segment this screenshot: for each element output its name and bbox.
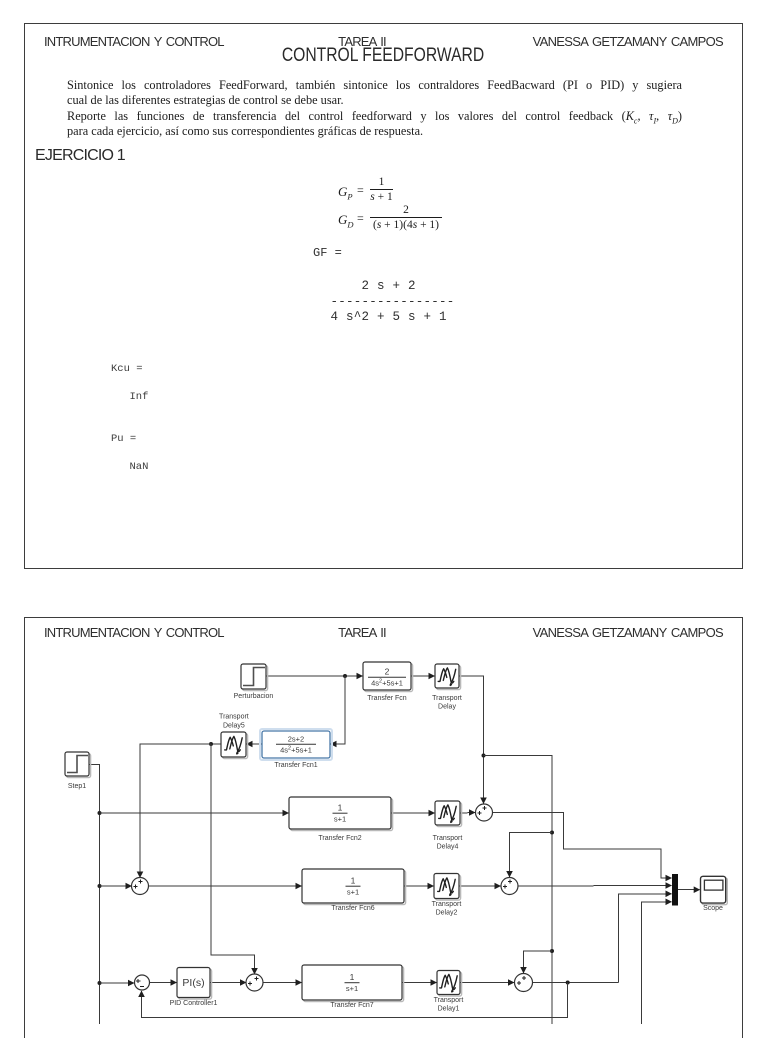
- node: junction on Perturbacion line: [343, 674, 347, 678]
- mux block Mux: [672, 874, 678, 906]
- node: junction x528 to Sum4R: [550, 831, 554, 835]
- wire: Transport Delay4 to Sum3 left input: [460, 812, 475, 815]
- GF =: [313, 246, 342, 260]
- wire: Transport Delay5 output going left: [211, 743, 221, 745]
- transfer function block Transfer Fcn6: [302, 869, 406, 912]
- EJERCICIO 1 heading: [35, 147, 125, 165]
- svg-text:Step1: Step1: [68, 783, 86, 790]
- source block Step1: [65, 752, 91, 790]
- page 1 header right: [523, 34, 723, 49]
- node: junction Step1 line to Sum4L: [98, 884, 102, 888]
- svg-text:2: 2: [385, 667, 390, 677]
- wire: Step1 output down the left vertical x=75.5: [89, 765, 100, 1025]
- svg-text:Transport: Transport: [433, 835, 463, 842]
- paragraph: [67, 78, 682, 139]
- sum block Sum5M: [246, 974, 263, 991]
- page 1 border: [24, 23, 744, 569]
- sum block Sum4L: [132, 878, 149, 895]
- wire: Perturbacion output to Transfer Fcn: [266, 675, 363, 677]
- page 2 header right: [523, 625, 723, 640]
- svg-text:Delay5: Delay5: [223, 722, 245, 729]
- svg-text:Delay4: Delay4: [437, 844, 459, 851]
- wire: Transfer Fcn2 to Transport Delay4: [391, 812, 435, 814]
- wire: branch left and down to Sum4L top input: [140, 744, 211, 878]
- svg-text:Transport: Transport: [432, 695, 462, 702]
- node: junction Step1 line to Sum5L: [98, 981, 102, 985]
- wire: Mux input 4 from bottom: [642, 902, 672, 1024]
- node: junction on Sum5R output: [566, 981, 570, 985]
- node: junction on Transport Delay drop line: [482, 754, 486, 758]
- wire: Sum4L output to Transfer Fcn6: [148, 885, 302, 887]
- wire: branch down from Perturbacion line into Transfer Fcn1 input: [330, 676, 345, 744]
- svg-text:Delay1: Delay1: [438, 1006, 460, 1013]
- svg-text:Transfer Fcn6: Transfer Fcn6: [331, 905, 374, 912]
- equation Gp = 1/(s+1): [338, 184, 353, 202]
- transport delay block Transport Delay: [432, 664, 462, 711]
- svg-text:Delay2: Delay2: [436, 910, 458, 917]
- page 1 title: [259, 45, 507, 67]
- wire: branch to Sum5R top input: [524, 951, 553, 973]
- wire: branch to Sum4R top input: [510, 833, 553, 878]
- svg-text:4s2+5s+1: 4s2+5s+1: [371, 679, 403, 688]
- svg-text:s+1: s+1: [347, 888, 359, 897]
- svg-text:PID Controller1: PID Controller1: [170, 1000, 218, 1007]
- transfer function text block: [331, 279, 455, 326]
- wire: Transport Delay down to Sum3 top: [459, 676, 484, 804]
- wire: Transfer Fcn1 output to Transport Delay5: [246, 743, 262, 745]
- wire: Transfer Fcn6 to Transport Delay2: [404, 885, 434, 887]
- svg-text:s+1: s+1: [334, 815, 346, 824]
- transfer function block Transfer Fcn7: [302, 965, 404, 1009]
- transport delay block Transport Delay5: [219, 713, 249, 758]
- Pu =: [111, 433, 136, 445]
- svg-text:Perturbacion: Perturbacion: [234, 693, 274, 700]
- page 1 header left: [44, 34, 224, 49]
- node: junction on Transport Delay5 output: [209, 742, 213, 746]
- wire: branch right then down long vertical x=528: [484, 756, 553, 1025]
- page 2 border: [24, 617, 744, 1038]
- svg-text:1: 1: [350, 972, 355, 982]
- Inf: [130, 391, 149, 403]
- svg-text:Scope: Scope: [703, 905, 723, 912]
- sum block Sum5L: [135, 975, 150, 990]
- sum block Sum3: [476, 804, 493, 821]
- svg-text:Transport: Transport: [219, 713, 249, 720]
- svg-text:Transfer Fcn2: Transfer Fcn2: [318, 835, 361, 842]
- svg-text:1: 1: [351, 876, 356, 886]
- wire: to Transfer Fcn2 input: [100, 812, 290, 814]
- Kcu =: [111, 363, 143, 375]
- wire: Transport Delay1 to Sum5R left input: [459, 982, 514, 984]
- svg-text:1: 1: [338, 803, 343, 813]
- wire: Transport Delay2 to Sum4R left input: [459, 885, 501, 887]
- transport delay block Transport Delay4: [433, 801, 463, 851]
- svg-text:s+1: s+1: [346, 984, 358, 993]
- svg-text:Transport: Transport: [434, 997, 464, 1004]
- wire: Sum5L output to PID Controller1: [150, 982, 177, 984]
- node: junction Step1 line to Transfer Fcn2: [98, 811, 102, 815]
- wire: PID Controller1 output to Sum5M: [210, 982, 246, 984]
- wire: Sum5M output to Transfer Fcn7: [263, 982, 302, 984]
- svg-text:4s2+5s+1: 4s2+5s+1: [280, 746, 312, 755]
- transfer function block Transfer Fcn1 (highlighted): [260, 729, 332, 769]
- svg-text:Transfer Fcn7: Transfer Fcn7: [330, 1002, 373, 1009]
- wire: to Sum4L left input: [100, 885, 132, 887]
- wire: up to Mux input 3: [619, 894, 672, 983]
- transport delay block Transport Delay2: [432, 874, 462, 917]
- page 1 header center: [282, 34, 442, 49]
- wire: Sum4R output to Mux input 2: [518, 885, 672, 888]
- page 2 header center: [282, 625, 442, 640]
- wire: Mux output to Scope: [678, 889, 700, 891]
- NaN: [130, 461, 149, 473]
- node: junction x528 to Sum5R: [550, 949, 554, 953]
- transfer function block Transfer Fcn2: [289, 797, 393, 842]
- wire: feedback from Sum5R output down and left to Sum5L minus input: [142, 983, 568, 1018]
- sum block Sum5R: [515, 974, 533, 992]
- wire: Sum3 output to Mux input 1: [493, 813, 672, 879]
- equation Gd = 2/((s+1)(4s+1)): [338, 212, 354, 230]
- wire: to Sum5L left input: [100, 982, 135, 984]
- svg-text:PI(s): PI(s): [182, 977, 204, 989]
- svg-text:2s+2: 2s+2: [288, 735, 304, 744]
- transport delay block Transport Delay1: [434, 971, 464, 1013]
- wire: Transfer Fcn7 to Transport Delay1: [402, 982, 437, 984]
- wire: Transfer Fcn to Transport Delay: [411, 675, 435, 677]
- svg-text:Transfer Fcn: Transfer Fcn: [367, 695, 407, 702]
- PID controller block PID Controller1: [170, 968, 218, 1008]
- svg-text:Transport: Transport: [432, 901, 462, 908]
- scope block Scope: [701, 876, 728, 912]
- page 2 header left: [44, 625, 224, 640]
- svg-text:Delay: Delay: [438, 704, 456, 711]
- svg-text:Transfer Fcn1: Transfer Fcn1: [274, 762, 317, 769]
- wire: branch down to Sum5M top input: [211, 744, 255, 974]
- sum block Sum4R: [501, 878, 518, 895]
- source block Perturbacion: [234, 664, 274, 700]
- transfer function block Transfer Fcn: [363, 662, 413, 702]
- wire: Sum5R output rightwards: [533, 982, 619, 984]
